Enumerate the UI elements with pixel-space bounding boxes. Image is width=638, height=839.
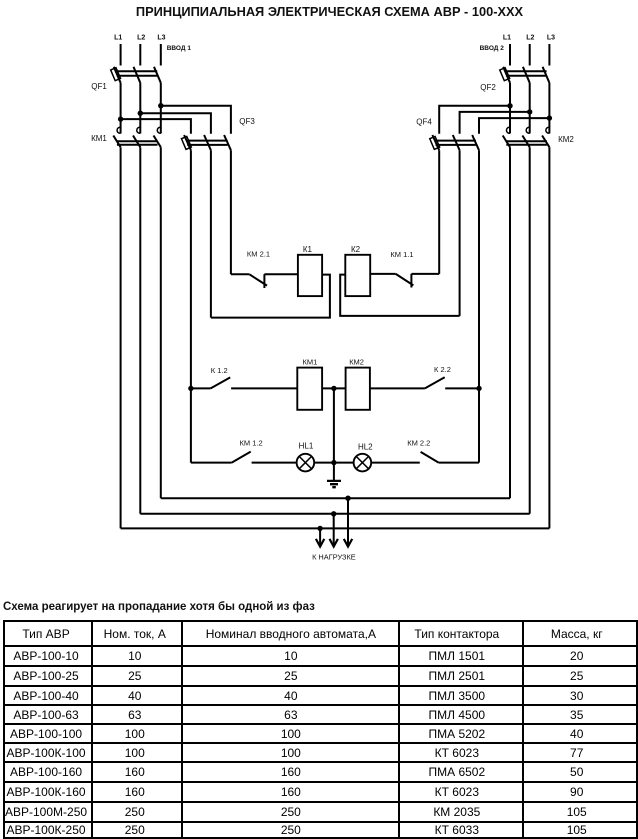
svg-text:КМ2: КМ2 xyxy=(558,135,574,144)
svg-text:QF4: QF4 xyxy=(416,117,432,126)
svg-text:К 1.2: К 1.2 xyxy=(211,366,228,375)
svg-text:L3: L3 xyxy=(547,35,555,42)
svg-text:L2: L2 xyxy=(137,35,145,42)
svg-text:QF1: QF1 xyxy=(91,82,107,91)
svg-text:L1: L1 xyxy=(114,35,122,42)
svg-text:КМ 2.2: КМ 2.2 xyxy=(407,438,430,447)
svg-text:КМ 1.1: КМ 1.1 xyxy=(390,250,413,259)
svg-text:ВВОД 2: ВВОД 2 xyxy=(480,45,505,52)
svg-text:К 2.2: К 2.2 xyxy=(434,365,451,374)
svg-text:QF2: QF2 xyxy=(480,83,496,92)
svg-text:КМ1: КМ1 xyxy=(91,134,107,143)
svg-text:КМ 1.2: КМ 1.2 xyxy=(240,438,263,447)
svg-text:HL1: HL1 xyxy=(299,442,314,451)
svg-text:КМ2: КМ2 xyxy=(349,358,364,367)
svg-text:К1: К1 xyxy=(303,245,313,254)
svg-text:L2: L2 xyxy=(526,35,534,42)
svg-text:КМ 2.1: КМ 2.1 xyxy=(247,249,270,258)
svg-text:КМ1: КМ1 xyxy=(303,358,318,367)
svg-text:L3: L3 xyxy=(157,35,165,42)
svg-text:ВВОД 1: ВВОД 1 xyxy=(167,45,192,52)
svg-text:QF3: QF3 xyxy=(239,117,255,126)
svg-text:К2: К2 xyxy=(351,245,361,254)
svg-text:К НАГРУЗКЕ: К НАГРУЗКЕ xyxy=(312,553,356,562)
svg-text:HL2: HL2 xyxy=(358,442,373,451)
svg-text:L1: L1 xyxy=(503,35,511,42)
